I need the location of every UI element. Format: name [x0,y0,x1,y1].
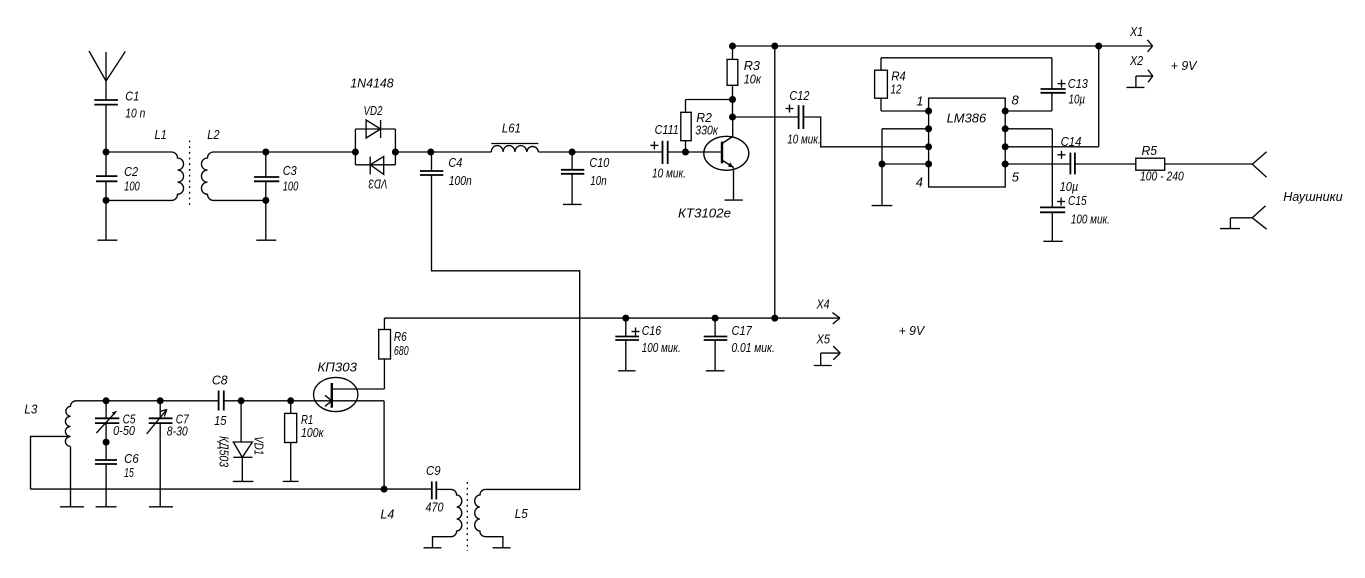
svg-text:100n: 100n [449,173,472,188]
node: VD1 top [238,397,245,404]
wire diode to C4 node [395,151,430,153]
lower common rail [31,488,432,490]
inductor L4 [433,489,462,547]
node: collector / C12 junction [729,114,736,121]
label R4 value [891,69,906,97]
label C3 value [283,163,299,193]
svg-text:470: 470 [426,500,445,515]
diode VD1 [233,401,252,482]
capacitor C4 [420,152,443,175]
svg-text:X1: X1 [1129,24,1143,39]
node: C5 top [103,397,110,404]
svg-text:5: 5 [1012,170,1020,185]
resistor R6 [379,318,391,389]
ground under L3 [60,506,84,508]
wire pin6 to top rail [1005,46,1098,147]
svg-text:R5: R5 [1142,143,1158,158]
label C6 value [124,451,139,480]
inductor L3 [65,401,76,447]
svg-text:КП303: КП303 [318,359,358,374]
wire C14 to R5 [1075,163,1136,165]
inductor L61 [491,144,538,153]
svg-text:X2: X2 [1129,53,1144,68]
node: source / C9 / rail junction [381,486,388,493]
wire L2 to diode pair [266,151,356,153]
ground under LM386 left [872,205,893,207]
wire C4 node to L61 [431,151,492,153]
ground under C3 [256,239,276,241]
node: L2 / C3 top junction [262,149,269,156]
capacitor C1 [94,100,118,152]
X4 arrow head [832,313,840,324]
diode VD2 [366,120,381,138]
gate wire L3 to FET [77,400,332,402]
label R6 value [394,329,409,358]
node: diode pair left [352,149,359,156]
svg-text:КТ3102е: КТ3102е [678,206,731,221]
svg-text:100: 100 [124,179,140,194]
headphone jack top contact [1252,152,1266,178]
wire C4 bottom to lower section [432,175,580,489]
wire pin5 output [1005,163,1070,165]
svg-text:10n: 10n [590,173,606,188]
node: rail at C16 [622,315,629,322]
node: diode pair right [392,149,399,156]
svg-text:8-30: 8-30 [167,423,189,438]
diode VD3 [370,157,384,175]
inductor L5 [475,489,503,547]
node: C7 top [157,397,164,404]
pin dots left [925,108,932,168]
variable capacitor C7 [147,401,173,507]
capacitor C14 (polarized) [1058,151,1075,175]
capacitor C13 (polarized) [1005,58,1065,111]
svg-text:C4: C4 [448,155,462,170]
wires LM386 pins 2,4 to ground [882,129,929,206]
ground under R1 [283,480,299,482]
svg-text:L3: L3 [24,402,38,417]
label C9 value [426,463,445,515]
svg-text:100: 100 [283,178,299,193]
node: rail at branch vertical [771,315,778,322]
ground under C6 [96,506,117,508]
svg-text:L2: L2 [207,127,220,142]
node: C111 / R2 junction [682,149,689,156]
ground under L4 [424,547,442,549]
wire C111 to base node [668,151,686,153]
resistor R4 gain loop [875,58,1052,111]
resistor R5 [1136,158,1165,170]
transformer core (dotted) L4-L5 [466,482,468,551]
svg-text:8: 8 [1012,93,1020,108]
svg-text:15: 15 [124,465,134,480]
label C13 value [1068,76,1089,107]
svg-text:C12: C12 [789,88,810,103]
capacitor C9 [432,481,452,499]
capacitor C3 [254,152,279,240]
svg-text:+ 9V: + 9V [1171,58,1198,73]
svg-text:C3: C3 [283,163,298,178]
label C10 value [589,155,610,188]
svg-text:10 мик.: 10 мик. [787,132,820,147]
label C8 value [212,373,228,429]
svg-text:+ 9V: + 9V [899,323,926,338]
capacitor C17 [704,318,728,371]
svg-text:VD2: VD2 [364,103,384,118]
label C12 value [787,88,820,147]
svg-text:VD1: VD1 [252,436,267,455]
wire vertical rail branch down to lower rail [774,46,776,318]
svg-text:100 мик.: 100 мик. [1071,212,1110,227]
svg-text:Наушники: Наушники [1283,189,1342,204]
svg-text:15: 15 [214,413,227,428]
wire L3 coil lead to ground [70,446,72,506]
label C111 value [652,122,686,181]
X1 arrow head [1147,40,1152,52]
wire base [686,151,723,153]
label C17 value [732,323,775,355]
ground under VD1 [233,480,254,482]
svg-text:100 мик.: 100 мик. [642,340,681,355]
ground under C15 [1043,240,1063,242]
svg-text:L4: L4 [380,507,394,522]
label R1 value [301,412,324,440]
capacitor C12 (polarized) [733,105,929,147]
svg-text:10µ: 10µ [1069,92,1086,107]
svg-text:КД503: КД503 [217,436,232,468]
transformer core (dotted) L1-L2 [189,141,191,209]
svg-text:4: 4 [916,175,923,190]
node: R1 top [287,397,294,404]
resistor R2 [681,100,733,153]
label R3 value [744,58,762,87]
node: rail at C17 [712,315,719,322]
svg-text:1N4148: 1N4148 [350,76,394,91]
wire R5 to phones jack [1165,163,1253,165]
svg-text:L61: L61 [502,121,521,136]
capacitor C2 [96,152,117,240]
svg-text:10 n: 10 n [125,106,145,121]
wire pin7 to C15 [1005,129,1052,208]
svg-text:100 - 240: 100 - 240 [1140,169,1184,184]
transistor VT КТ3102е [704,117,749,200]
node: rail at X1 branch [1095,43,1102,50]
svg-text:R6: R6 [394,329,407,344]
diode pair frame wires [355,129,395,165]
node: C10 top [569,149,576,156]
svg-text:10 мик.: 10 мик. [652,166,686,181]
capacitor C8 [219,391,224,411]
svg-text:C16: C16 [642,323,662,338]
capacitor C111 (polarized) [650,141,667,164]
node: L2 / C3 bottom junction [262,197,269,204]
wire C10 node to C111 [572,151,662,153]
svg-text:C13: C13 [1068,76,1089,91]
label C1 value [125,89,145,121]
svg-text:0-50: 0-50 [113,423,136,438]
capacitor C15 (polarized) [1040,198,1065,242]
headphone jack bottom contact [1220,206,1267,229]
svg-text:10µ: 10µ [1060,179,1079,194]
wire drain [332,388,385,390]
label C15 value [1068,193,1110,227]
svg-text:L1: L1 [155,127,167,142]
svg-text:680: 680 [394,343,409,358]
node: pin4 wire junction [879,161,886,168]
node: C5 / C6 junction [103,439,110,446]
capacitor C16 (polarized) [615,318,639,371]
variable capacitor C5 [95,401,119,442]
svg-text:X5: X5 [816,332,831,347]
capacitor C6 [95,442,117,507]
wire L3 tap to rail [31,436,71,489]
svg-text:C17: C17 [732,323,753,338]
inductor L1 [106,152,184,200]
top power rail [733,45,1153,47]
node: rail at branch vertical [771,43,778,50]
node: rail at R3 [729,43,736,50]
wire source to L4 junction [332,401,384,489]
resistor R1 [285,401,297,482]
label R5 value [1140,143,1184,184]
lower power rail [384,317,840,319]
resistor R3 [727,46,738,117]
svg-text:C15: C15 [1068,193,1087,208]
label R2 value [695,110,718,138]
node: R3 / R2 junction [729,96,736,103]
wire L61 to C10 node [538,151,572,153]
svg-text:C1: C1 [125,89,139,104]
node: C4 top [427,149,434,156]
ground under C7 [149,506,173,508]
label C16 value [642,323,681,355]
connector symbol X2 [1127,70,1153,88]
ground under C10 [563,203,582,205]
label C2 value [124,164,140,194]
svg-text:C9: C9 [426,463,441,478]
ground under emitter [725,199,743,201]
svg-text:C14: C14 [1061,134,1082,149]
node: antenna / C2 / L1 junction [103,149,110,156]
svg-text:1: 1 [916,94,923,109]
ground under C2 [97,239,117,241]
label C4 value [448,155,471,188]
svg-text:LM386: LM386 [947,111,987,126]
svg-text:12: 12 [891,82,902,97]
svg-text:L5: L5 [515,506,529,521]
svg-text:C8: C8 [212,373,228,388]
pin dots right [1002,108,1009,168]
svg-text:C6: C6 [124,451,139,466]
svg-text:330к: 330к [695,123,718,138]
op-amp U1 LM386 box [929,98,1006,187]
node: C2 / L1 bottom junction [103,197,110,204]
svg-text:C10: C10 [589,155,610,170]
capacitor C10 [561,152,584,204]
label C14 value [1060,134,1082,194]
svg-text:10к: 10к [744,72,762,87]
svg-text:100к: 100к [301,425,324,440]
svg-text:C2: C2 [124,164,139,179]
svg-text:VD3: VD3 [368,177,388,192]
inductor L2 [201,152,265,200]
label C5 value [113,412,136,439]
label C7 value [167,412,189,439]
svg-text:0.01 мик.: 0.01 мик. [732,340,775,355]
antenna WA1 [89,51,125,100]
ground under C16 [618,370,635,372]
ground under C17 [706,370,725,372]
svg-text:C111: C111 [655,122,679,137]
svg-text:X4: X4 [816,296,830,311]
connector symbol X5 [814,346,841,365]
transistor VT КП303 [314,377,358,411]
ground under L5 [493,547,511,549]
